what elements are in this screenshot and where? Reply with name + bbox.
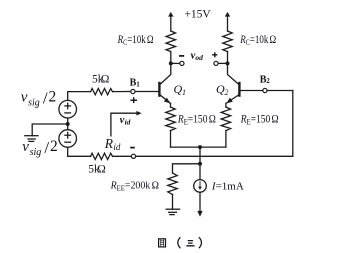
svg-text:v: v (21, 89, 28, 105)
label vod minus sign (179, 55, 184, 57)
wire Q2 collector (228, 63, 240, 84)
svg-text:1: 1 (136, 80, 140, 88)
svg-text:/: / (44, 138, 49, 157)
wire riser to B2 terminal (267, 90, 293, 92)
label plus at B1 (130, 97, 137, 103)
node collector Q1 (junction dot) (169, 61, 173, 65)
transistor Q2 emitter with arrow (226, 95, 239, 104)
B2 terminal (open circle) (263, 88, 267, 92)
svg-text:od: od (195, 53, 203, 62)
wire between sources (67, 118, 69, 130)
wire Q2 emitter to RE2 (225, 103, 227, 107)
wire Q1 emitter to RE1 (170, 103, 172, 107)
wire Rs2 to lower input terminal (113, 155, 132, 157)
svg-text:2: 2 (50, 138, 58, 155)
svg-text:RC=10kΩ: RC=10kΩ (239, 34, 276, 47)
ground (under REE) (166, 209, 179, 214)
wire emitter rail down to current source (199, 147, 201, 180)
wire RC1 bottom to collector node (170, 52, 172, 64)
caption figure (three) drawn as vector glyphs (159, 237, 202, 248)
node emitter rail junction (dot) (198, 145, 202, 149)
svg-text:id: id (125, 118, 131, 127)
svg-text:R: R (104, 136, 114, 151)
resistor RC1 (left, 10k) (166, 31, 175, 52)
transistor Q2 base bar (238, 83, 240, 96)
svg-text:RE=150Ω: RE=150Ω (177, 114, 216, 127)
label minus at lower input (130, 147, 135, 149)
svg-text:2: 2 (266, 77, 270, 85)
label vod plus sign (212, 52, 217, 57)
svg-text:RE=150Ω: RE=150Ω (240, 114, 279, 127)
ground (left) (25, 136, 38, 142)
B1 terminal (open circle) (131, 89, 135, 93)
svg-text:sig: sig (28, 97, 40, 108)
wire RE2 to emitter rail (225, 131, 227, 148)
wire resistor Rs1 to B1 (113, 91, 131, 93)
svg-text:RC=10kΩ: RC=10kΩ (117, 34, 154, 47)
resistor Rs2 5k (bottom) (91, 153, 113, 159)
source Vsig/2 bottom (59, 130, 77, 148)
transistor Q1 emitter with arrow (160, 95, 171, 104)
wire REE to ground (172, 195, 174, 210)
svg-text:Ω: Ω (97, 163, 106, 175)
caption glyph tu (box) (159, 239, 166, 247)
svg-text:+15V: +15V (184, 9, 211, 21)
lower input terminal (open circle) (131, 154, 135, 158)
caption open paren (178, 237, 181, 248)
svg-text:2: 2 (225, 88, 229, 97)
+15V supply arrow left (168, 12, 173, 31)
wire base Q1 from B1 terminal (135, 91, 159, 93)
wire current source to negative rail with arrow (197, 192, 202, 217)
svg-text:v: v (22, 139, 29, 155)
vod minus terminal (open circle) (180, 61, 184, 65)
wire B2 to Q2 base (239, 90, 262, 92)
node REE branch junction (dot) (198, 162, 202, 166)
svg-text:I=1mA: I=1mA (211, 181, 244, 193)
svg-text:sig: sig (30, 147, 42, 158)
wire RC2 bottom to collector node (227, 52, 229, 64)
vid elbow arrow (111, 111, 142, 136)
wire RE1 to emitter rail (170, 131, 172, 148)
resistor RE1 150ohm (166, 107, 175, 131)
wire source vsig top to Rs1 (68, 92, 91, 101)
wire to ground (32, 124, 67, 136)
svg-text:id: id (113, 142, 121, 152)
svg-text:2: 2 (49, 88, 57, 105)
resistor REE 200k (168, 173, 177, 195)
wire Q1 collector (160, 63, 171, 84)
svg-text:Ω: Ω (101, 73, 110, 85)
wire source bottom to Rs2 (68, 147, 91, 156)
caption glyph san (three) (186, 241, 194, 246)
transistor Q1 base bar (158, 83, 160, 96)
wire right riser up to B2 level (292, 91, 294, 157)
node ground junction (dot) (66, 122, 70, 126)
svg-text:/: / (43, 88, 48, 107)
svg-text:1: 1 (182, 88, 186, 97)
current source I=1mA (194, 180, 207, 193)
wire right collector node to vod plus terminal (218, 62, 227, 64)
resistor RC2 (right, 10k) (223, 31, 232, 52)
wire lower input net to B2 right riser (136, 155, 293, 157)
wire emitter rail (171, 146, 226, 148)
+15V supply arrow right (225, 12, 230, 31)
resistor Rs1 5k (top) (91, 89, 113, 95)
node collector Q2 (junction dot) (226, 61, 230, 65)
source Vsig/2 top (59, 100, 77, 118)
wire REE branch (173, 164, 201, 173)
resistor RE2 150ohm (221, 107, 230, 131)
vod plus terminal (open circle) (214, 61, 218, 65)
wire left collector node to vod minus terminal (171, 62, 180, 64)
caption close paren (199, 237, 202, 248)
